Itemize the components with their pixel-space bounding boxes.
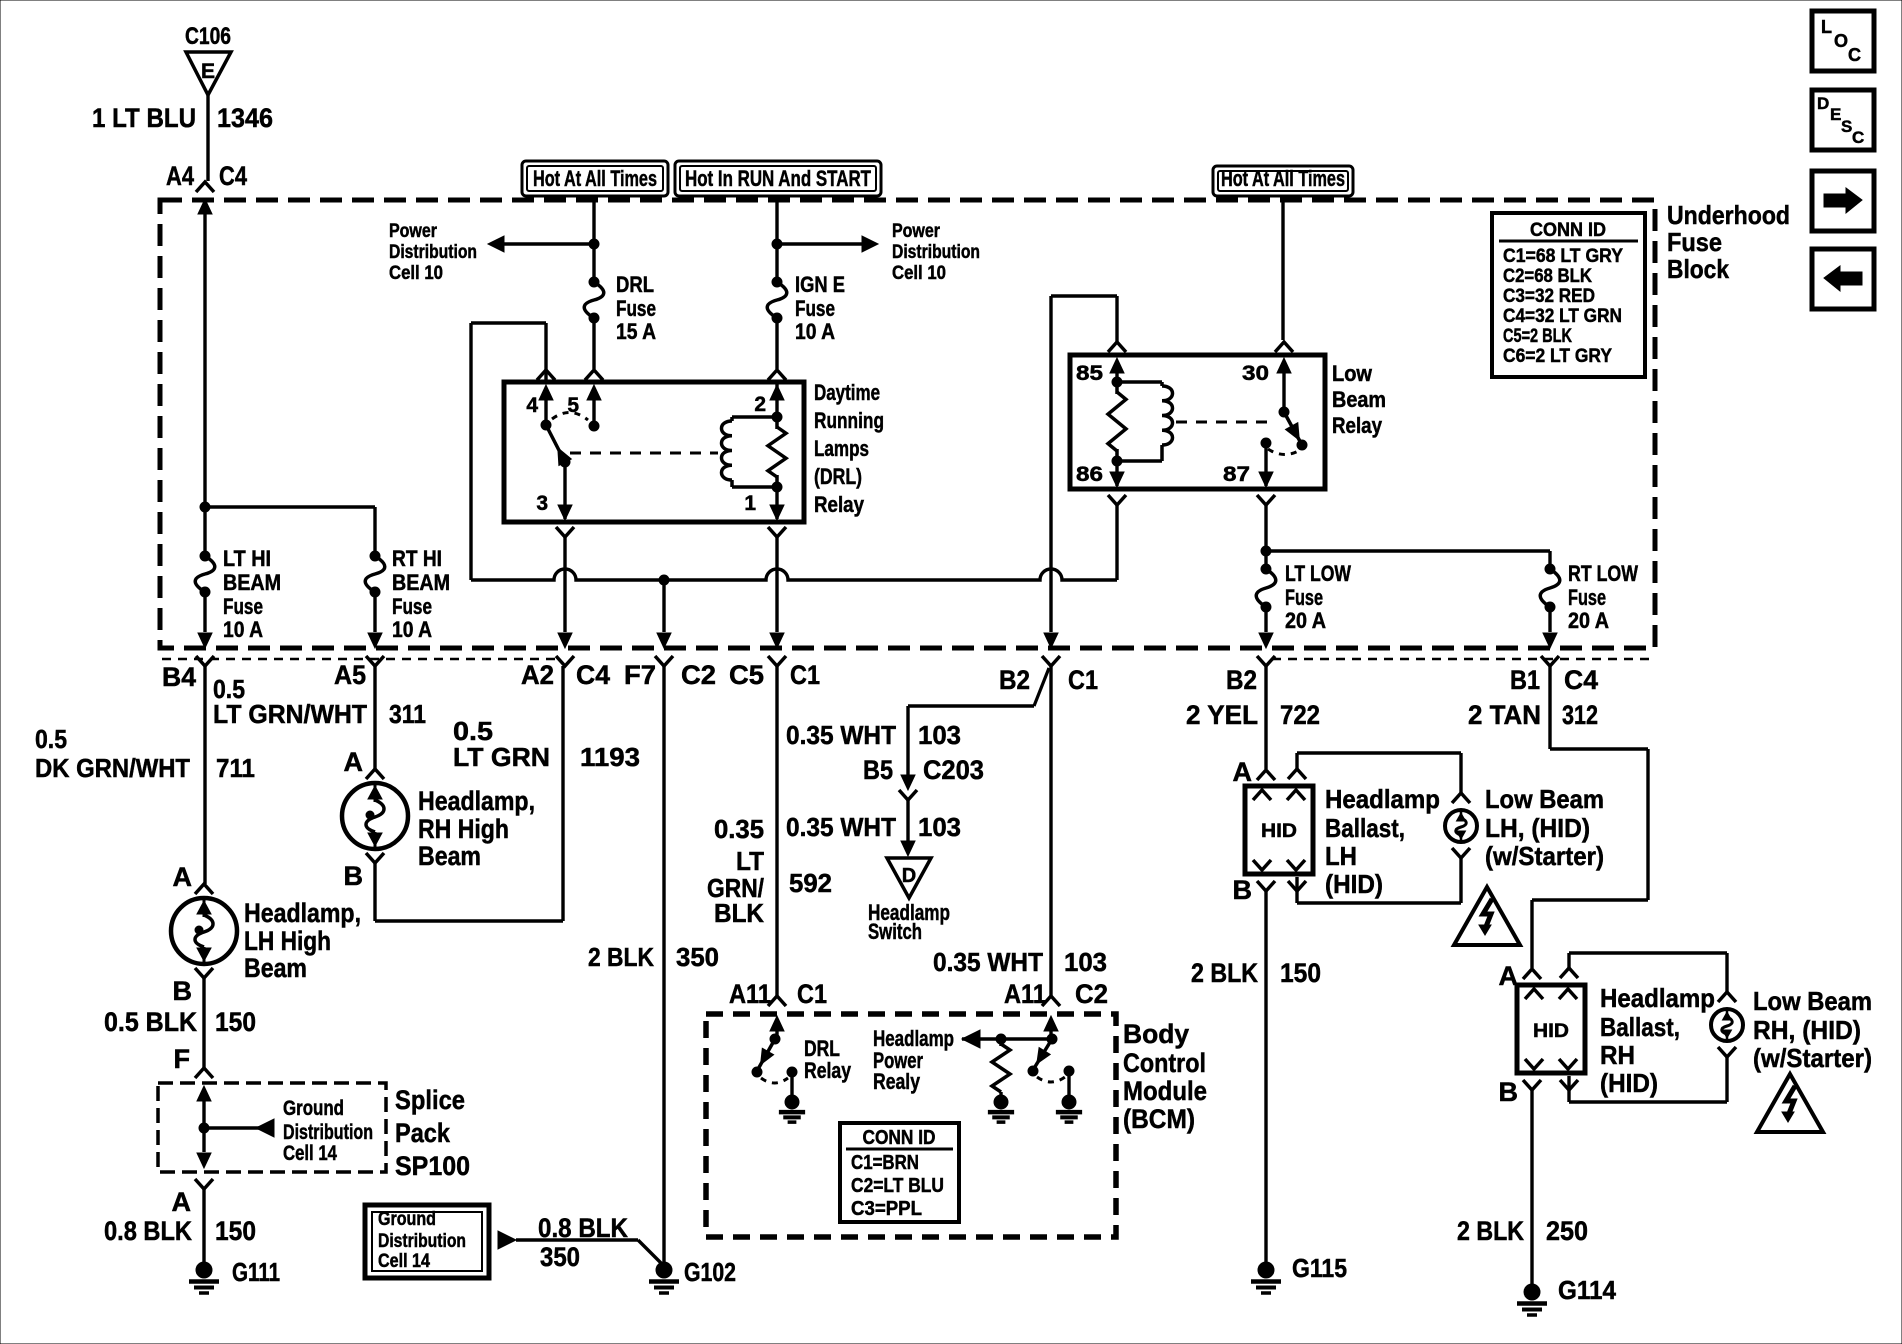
svg-text:CONN ID: CONN ID — [1530, 220, 1606, 241]
svg-text:10 A: 10 A — [223, 617, 263, 642]
svg-text:10 A: 10 A — [795, 319, 835, 344]
svg-text:C4: C4 — [576, 660, 610, 690]
svg-text:Module: Module — [1123, 1076, 1207, 1106]
svg-text:Splice: Splice — [395, 1085, 465, 1115]
svg-text:L: L — [1821, 17, 1832, 37]
svg-text:Lamps: Lamps — [814, 436, 869, 461]
svg-text:Headlamp,: Headlamp, — [418, 786, 535, 816]
svg-text:A2: A2 — [521, 660, 554, 690]
svg-text:F7: F7 — [624, 660, 656, 690]
svg-text:Low: Low — [1332, 361, 1373, 386]
svg-text:Distribution: Distribution — [892, 242, 980, 263]
svg-text:CONN ID: CONN ID — [863, 1127, 936, 1149]
svg-text:Realy: Realy — [873, 1069, 921, 1094]
svg-text:85: 85 — [1076, 362, 1103, 385]
svg-text:A: A — [344, 747, 364, 777]
svg-text:BEAM: BEAM — [223, 570, 281, 595]
svg-text:RH: RH — [1600, 1040, 1635, 1070]
svg-text:0.35: 0.35 — [714, 814, 764, 844]
svg-text:Running: Running — [814, 408, 884, 433]
svg-text:LT GRN: LT GRN — [453, 742, 550, 772]
svg-text:150: 150 — [215, 1216, 256, 1246]
svg-text:Relay: Relay — [804, 1058, 852, 1083]
svg-text:Headlamp,: Headlamp, — [244, 898, 361, 928]
svg-text:G102: G102 — [684, 1257, 736, 1287]
svg-text:E: E — [1830, 105, 1841, 124]
svg-text:LH: LH — [1325, 841, 1357, 871]
svg-text:Distribution: Distribution — [378, 1231, 466, 1252]
svg-text:LT: LT — [736, 846, 764, 876]
svg-text:(w/Starter): (w/Starter) — [1753, 1043, 1872, 1073]
svg-text:311: 311 — [389, 699, 426, 729]
svg-text:C1=BRN: C1=BRN — [851, 1152, 919, 1174]
svg-text:A: A — [1233, 757, 1253, 787]
svg-text:DRL: DRL — [616, 272, 654, 297]
svg-text:Relay: Relay — [814, 492, 865, 517]
svg-text:0.35 WHT: 0.35 WHT — [933, 947, 1043, 977]
svg-text:A: A — [173, 862, 193, 892]
svg-text:(w/Starter): (w/Starter) — [1485, 841, 1604, 871]
svg-text:2 YEL: 2 YEL — [1186, 700, 1258, 730]
svg-text:C2=68 BLK: C2=68 BLK — [1503, 266, 1592, 287]
svg-text:0.8 BLK: 0.8 BLK — [538, 1213, 628, 1243]
svg-text:Fuse: Fuse — [1568, 585, 1606, 610]
svg-text:Ballast,: Ballast, — [1325, 813, 1405, 843]
svg-text:B2: B2 — [1226, 665, 1257, 695]
svg-text:LH, (HID): LH, (HID) — [1485, 813, 1590, 843]
svg-text:A11: A11 — [1004, 979, 1046, 1009]
svg-text:LT HI: LT HI — [223, 546, 271, 571]
svg-text:0.5: 0.5 — [35, 724, 67, 754]
svg-text:Distribution: Distribution — [283, 1121, 373, 1144]
svg-text:C1: C1 — [790, 660, 820, 690]
svg-text:2 BLK: 2 BLK — [588, 942, 654, 972]
svg-text:Ground: Ground — [378, 1209, 436, 1230]
svg-text:Low Beam: Low Beam — [1753, 986, 1872, 1016]
svg-text:312: 312 — [1562, 700, 1598, 730]
svg-text:C4: C4 — [1564, 665, 1598, 695]
svg-text:B: B — [173, 976, 193, 1006]
svg-text:Fuse: Fuse — [392, 594, 432, 619]
svg-text:C5=2 BLK: C5=2 BLK — [1503, 326, 1572, 347]
svg-text:103: 103 — [918, 720, 961, 750]
svg-text:Switch: Switch — [868, 919, 922, 944]
svg-text:1193: 1193 — [580, 742, 640, 772]
svg-text:Control: Control — [1123, 1048, 1206, 1078]
svg-text:F: F — [174, 1044, 191, 1074]
svg-text:C2: C2 — [1075, 979, 1108, 1009]
svg-text:Low Beam: Low Beam — [1485, 784, 1604, 814]
svg-text:C5: C5 — [729, 660, 764, 690]
svg-text:O: O — [1834, 31, 1848, 51]
svg-text:Fuse: Fuse — [616, 296, 656, 321]
svg-text:Cell 14: Cell 14 — [283, 1142, 337, 1165]
svg-text:RT LOW: RT LOW — [1568, 561, 1638, 586]
svg-text:C4: C4 — [219, 161, 247, 191]
svg-text:Underhood: Underhood — [1667, 200, 1790, 230]
svg-text:C203: C203 — [923, 755, 984, 785]
svg-text:BEAM: BEAM — [392, 570, 450, 595]
svg-text:1: 1 — [744, 492, 756, 515]
svg-text:B: B — [1233, 875, 1253, 905]
svg-text:B1: B1 — [1510, 665, 1540, 695]
svg-text:Cell 10: Cell 10 — [892, 263, 946, 284]
svg-text:Fuse: Fuse — [1667, 227, 1722, 257]
svg-text:LT LOW: LT LOW — [1285, 561, 1351, 586]
svg-text:20 A: 20 A — [1568, 608, 1609, 633]
svg-text:IGN E: IGN E — [795, 272, 845, 297]
svg-text:350: 350 — [540, 1242, 580, 1272]
svg-text:B4: B4 — [162, 662, 196, 692]
svg-text:HID: HID — [1533, 1021, 1569, 1042]
svg-text:B: B — [344, 861, 364, 891]
svg-text:(HID): (HID) — [1600, 1068, 1658, 1098]
svg-text:D: D — [1817, 94, 1829, 113]
svg-text:20 A: 20 A — [1285, 608, 1326, 633]
svg-text:Daytime: Daytime — [814, 380, 880, 405]
svg-text:Headlamp: Headlamp — [1325, 784, 1440, 814]
svg-text:86: 86 — [1076, 463, 1103, 486]
svg-text:G115: G115 — [1292, 1253, 1347, 1283]
svg-text:350: 350 — [676, 942, 719, 972]
svg-text:S: S — [1841, 117, 1852, 136]
svg-text:SP100: SP100 — [395, 1151, 470, 1181]
svg-text:150: 150 — [1280, 958, 1321, 988]
svg-text:B: B — [1499, 1077, 1519, 1107]
svg-text:87: 87 — [1223, 463, 1250, 486]
svg-text:Cell 10: Cell 10 — [389, 263, 443, 284]
svg-text:250: 250 — [1546, 1216, 1588, 1246]
svg-text:(DRL): (DRL) — [814, 464, 862, 489]
svg-text:2: 2 — [754, 393, 766, 416]
svg-text:DK GRN/WHT: DK GRN/WHT — [35, 753, 190, 783]
svg-text:Beam: Beam — [244, 953, 307, 983]
svg-text:C: C — [1848, 45, 1861, 65]
svg-text:C: C — [1852, 128, 1864, 147]
svg-text:0.8 BLK: 0.8 BLK — [104, 1216, 192, 1246]
svg-text:C6=2 LT GRY: C6=2 LT GRY — [1503, 346, 1612, 367]
svg-text:Ground: Ground — [283, 1097, 344, 1120]
svg-text:RH High: RH High — [418, 814, 509, 844]
svg-text:C2=LT BLU: C2=LT BLU — [851, 1175, 944, 1197]
svg-text:Fuse: Fuse — [223, 594, 263, 619]
svg-text:C106: C106 — [185, 23, 231, 50]
svg-text:0.5 BLK: 0.5 BLK — [104, 1007, 197, 1037]
svg-text:C1: C1 — [797, 979, 827, 1009]
svg-text:(HID): (HID) — [1325, 869, 1383, 899]
svg-text:A5: A5 — [334, 660, 366, 690]
svg-text:1346: 1346 — [217, 103, 273, 133]
svg-text:1 LT BLU: 1 LT BLU — [92, 103, 196, 133]
svg-text:B5: B5 — [863, 755, 893, 785]
svg-text:Beam: Beam — [418, 841, 481, 871]
svg-text:A11: A11 — [729, 979, 771, 1009]
svg-text:B2: B2 — [999, 665, 1030, 695]
svg-text:Fuse: Fuse — [1285, 585, 1323, 610]
svg-text:C1: C1 — [1068, 665, 1098, 695]
svg-text:C1=68 LT GRY: C1=68 LT GRY — [1503, 246, 1623, 267]
svg-text:Block: Block — [1667, 254, 1729, 284]
svg-text:Hot At All Times: Hot At All Times — [1221, 166, 1345, 191]
svg-text:0.35 WHT: 0.35 WHT — [786, 720, 896, 750]
svg-text:A: A — [172, 1187, 192, 1217]
svg-text:E: E — [201, 60, 215, 83]
svg-text:C3=PPL: C3=PPL — [851, 1198, 922, 1220]
svg-text:Distribution: Distribution — [389, 242, 477, 263]
svg-text:0.35 WHT: 0.35 WHT — [786, 812, 896, 842]
svg-text:711: 711 — [216, 753, 255, 783]
svg-text:15 A: 15 A — [616, 319, 656, 344]
svg-text:RH, (HID): RH, (HID) — [1753, 1015, 1861, 1045]
svg-text:RT HI: RT HI — [392, 546, 442, 571]
svg-text:HID: HID — [1261, 821, 1297, 842]
svg-text:10 A: 10 A — [392, 617, 432, 642]
svg-text:BLK: BLK — [714, 898, 764, 928]
svg-text:Power: Power — [892, 221, 940, 242]
svg-text:Headlamp: Headlamp — [1600, 983, 1715, 1013]
svg-text:Hot At All Times: Hot At All Times — [533, 166, 657, 191]
svg-text:Power: Power — [389, 221, 437, 242]
svg-text:Beam: Beam — [1332, 387, 1386, 412]
svg-text:Cell 14: Cell 14 — [378, 1251, 430, 1272]
svg-text:2 BLK: 2 BLK — [1191, 958, 1258, 988]
svg-text:722: 722 — [1280, 700, 1320, 730]
svg-text:A4: A4 — [166, 161, 194, 191]
svg-text:Hot In RUN And START: Hot In RUN And START — [685, 166, 871, 191]
svg-text:D: D — [902, 865, 916, 887]
svg-text:3: 3 — [536, 492, 548, 515]
svg-text:Relay: Relay — [1332, 413, 1383, 438]
svg-text:LT GRN/WHT: LT GRN/WHT — [213, 699, 367, 729]
svg-text:103: 103 — [918, 812, 961, 842]
svg-text:Fuse: Fuse — [795, 296, 835, 321]
svg-text:G111: G111 — [232, 1257, 280, 1287]
svg-text:G114: G114 — [1558, 1275, 1617, 1305]
svg-text:2 BLK: 2 BLK — [1457, 1216, 1524, 1246]
svg-text:592: 592 — [789, 868, 832, 898]
svg-text:Body: Body — [1123, 1019, 1189, 1049]
svg-text:Pack: Pack — [395, 1118, 451, 1148]
svg-text:2 TAN: 2 TAN — [1468, 700, 1541, 730]
svg-text:30: 30 — [1242, 362, 1269, 385]
svg-text:(BCM): (BCM) — [1123, 1104, 1195, 1134]
svg-text:150: 150 — [215, 1007, 256, 1037]
svg-text:103: 103 — [1064, 947, 1107, 977]
svg-text:C4=32 LT GRN: C4=32 LT GRN — [1503, 306, 1622, 327]
svg-text:4: 4 — [526, 394, 538, 417]
svg-text:LH High: LH High — [244, 926, 331, 956]
svg-text:Ballast,: Ballast, — [1600, 1012, 1680, 1042]
svg-text:C2: C2 — [681, 660, 716, 690]
svg-text:C3=32 RED: C3=32 RED — [1503, 286, 1595, 307]
